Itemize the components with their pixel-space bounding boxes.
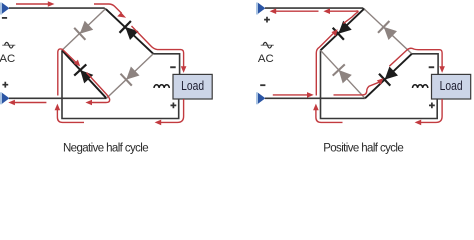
- svg-text:AC: AC: [258, 53, 274, 65]
- diode D-bottomleft black symbol: [74, 64, 93, 83]
- load box: [173, 74, 212, 99]
- AC source symbol: [261, 42, 274, 48]
- minus sign (bottom terminal): [260, 84, 265, 86]
- wire: top from terminal to bridge top corner: [9, 8, 107, 10]
- current path: up top-left arm, U-turn at top corner, leftward: [323, 8, 358, 23]
- plus sign (bottom terminal): [2, 82, 8, 88]
- diode D-bottomright gray symbol: [121, 67, 140, 86]
- minus sign at load top: [170, 66, 176, 68]
- wire: bridge left corner down and along bottom to load bottom: [62, 50, 179, 118]
- svg-text:Positive half cycle: Positive half cycle: [323, 143, 403, 155]
- current arrow: bottom wire rightward from negative terminal: [273, 92, 314, 98]
- plus sign at load bottom: [171, 103, 177, 109]
- wire: bridge right corner to load top: [153, 54, 179, 75]
- diode arm bottom-left (conducting, black): [62, 50, 107, 98]
- AC source terminal (top left, negative): [0, 3, 9, 15]
- wire: bridge right corner to load top: [412, 54, 438, 75]
- current path: up left vertical, onto top-left arm: [316, 29, 337, 95]
- diode D-bottomright black symbol: [379, 67, 398, 86]
- wire: top from terminal to bridge top corner: [265, 8, 365, 10]
- svg-text:Negative half cycle: Negative half cycle: [63, 143, 148, 155]
- wire: bottom from terminal to bridge bottom corner: [9, 97, 107, 99]
- AC source symbol: [2, 42, 15, 48]
- plus sign at load bottom: [429, 103, 435, 109]
- diode arm top-left (conducting, black): [321, 9, 364, 50]
- inductor coil beside load: [154, 85, 169, 88]
- current path: up bottom-right arm, around right corner, into load top: [389, 48, 445, 73]
- plus sign (top terminal): [264, 17, 270, 23]
- wire: bridge left corner down and along bottom to load bottom: [321, 50, 438, 118]
- load box: [432, 74, 471, 99]
- diode D-topleft gray symbol: [74, 21, 93, 40]
- AC source terminal (bottom left, negative): [256, 92, 265, 104]
- current path: down bottom-left arm, U-turn at bottom corner, leftward: [85, 73, 109, 106]
- current arrow: bottom wire toward positive terminal: [8, 100, 46, 106]
- svg-text:Load: Load: [181, 78, 204, 94]
- current path: load bottom, left along lower wire: [415, 99, 443, 125]
- diode D-bottomleft gray symbol: [333, 64, 352, 83]
- current path: down top-right arm, around right corner, into load top: [132, 26, 187, 73]
- diode arm bottom-right (off, gray): [107, 54, 154, 99]
- current path: up left vertical, onto bottom-left arm: [58, 49, 80, 96]
- svg-text:Load: Load: [440, 78, 463, 94]
- diode arm top-right (off, gray): [365, 9, 412, 54]
- current path: lower wire up toward bridge left corner: [55, 104, 84, 123]
- current arrow: over top corner onto top-right arm: [94, 4, 126, 18]
- diode D-topright gray symbol: [378, 21, 397, 40]
- svg-text:AC: AC: [0, 53, 15, 65]
- diode D-topright black symbol: [120, 21, 139, 40]
- minus sign (top terminal): [2, 17, 7, 19]
- minus sign at load top: [429, 66, 435, 68]
- inductor coil beside load: [413, 85, 428, 88]
- wire: bottom from terminal to bridge bottom corner: [265, 97, 365, 99]
- diode arm bottom-right (conducting, black): [365, 54, 412, 99]
- diode arm bottom-left (off, gray): [321, 50, 366, 98]
- diode D-topleft black symbol: [333, 21, 352, 40]
- current arrow: top wire rightward: [16, 1, 55, 7]
- current path: along bottom wire, curl up onto bottom-right arm: [334, 78, 384, 95]
- diode arm top-left (off, gray): [62, 9, 105, 50]
- AC source terminal (bottom left, positive): [0, 92, 9, 104]
- AC source terminal (top left, positive): [256, 3, 265, 15]
- current path: load bottom, left along lower wire: [155, 99, 184, 125]
- current arrow: top wire toward positive terminal: [270, 8, 319, 14]
- diode arm top-right (conducting, black): [106, 9, 153, 54]
- current path: lower wire up toward bridge left corner: [313, 104, 342, 123]
